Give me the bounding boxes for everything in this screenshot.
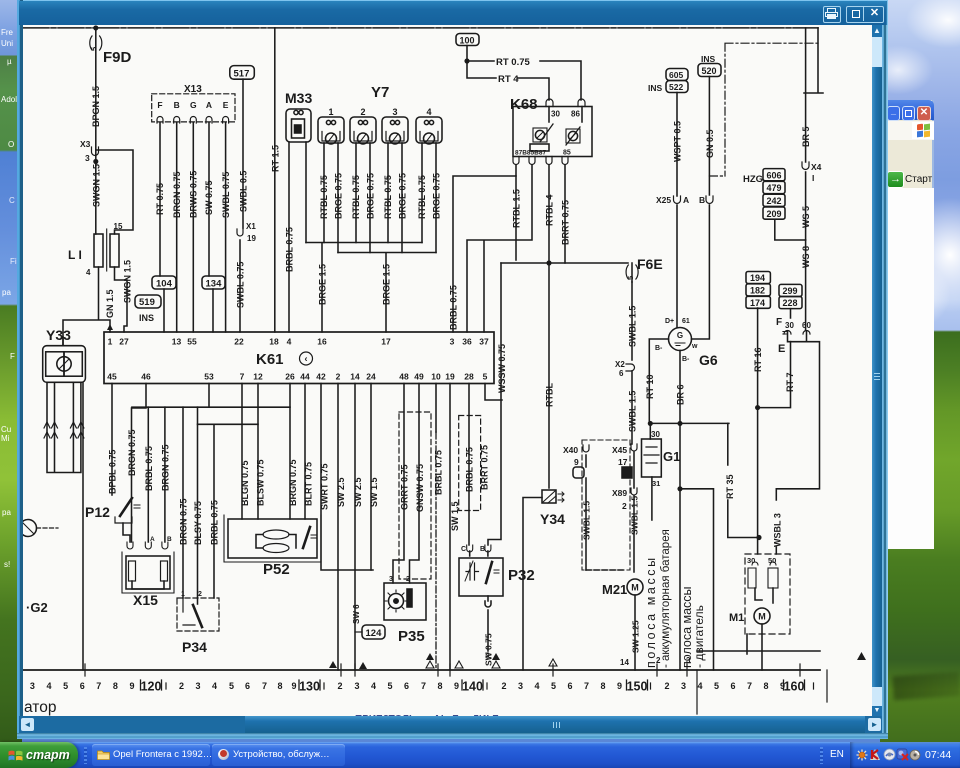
svg-text:WSPT 0.5: WSPT 0.5 <box>673 121 683 162</box>
svg-text:C: C <box>461 546 466 553</box>
svg-text:SWBL 1.5: SWBL 1.5 <box>628 306 638 347</box>
svg-text:B-: B- <box>655 345 663 352</box>
K68 bottom connector stubs <box>513 157 519 165</box>
wire G6 bottom BR 6 <box>679 351 681 424</box>
wires injector 1 <box>324 143 338 253</box>
svg-text:F6E: F6E <box>637 256 663 272</box>
clock <box>925 749 951 761</box>
dashed harness box X40 X45 <box>582 440 630 570</box>
svg-text:G6: G6 <box>699 352 718 368</box>
wire pin 2 SW 2.5 <box>337 384 339 671</box>
svg-text:F: F <box>776 317 782 328</box>
diagram bottom frame line <box>23 669 820 671</box>
svg-text:14: 14 <box>620 658 629 667</box>
svg-text:3: 3 <box>85 153 90 163</box>
svg-text:B: B <box>174 100 180 110</box>
svg-text:X40: X40 <box>563 445 578 455</box>
sensor P35 <box>384 583 426 620</box>
svg-text:174: 174 <box>750 298 765 308</box>
svg-text:SWGN 1.5: SWGN 1.5 <box>123 260 133 303</box>
svg-text:299: 299 <box>783 286 798 296</box>
svg-text:X2: X2 <box>615 360 625 369</box>
ruler ticks below frame <box>697 670 827 714</box>
svg-text:WS 8: WS 8 <box>801 246 811 268</box>
svg-text:GNSW 0.75: GNSW 0.75 <box>415 464 425 512</box>
svg-text:30: 30 <box>651 430 660 439</box>
svg-text:M33: M33 <box>285 90 312 106</box>
svg-text:3: 3 <box>392 107 397 117</box>
Старт launcher row <box>887 171 904 188</box>
svg-text:104: 104 <box>156 279 173 290</box>
svg-text:BRWS 0.75: BRWS 0.75 <box>189 171 199 218</box>
wire 517 to X1 to K61 pin 22 <box>240 79 243 332</box>
wires injector 4 <box>422 143 436 253</box>
svg-text:BRBL 0.75: BRBL 0.75 <box>449 285 459 330</box>
svg-text:RTBL 0.75: RTBL 0.75 <box>417 175 427 219</box>
svg-text:194: 194 <box>750 273 765 283</box>
svg-text:4: 4 <box>426 107 431 117</box>
svg-text:BLSY 0.75: BLSY 0.75 <box>193 501 203 545</box>
battery G1 <box>649 423 651 439</box>
wire RTBL 1.5 <box>515 176 517 260</box>
wire M33 right to bus <box>305 142 307 243</box>
wires pins 7,12,26,44 to P52 <box>241 384 243 520</box>
svg-text:A: A <box>206 100 212 110</box>
wire WS 5 <box>805 172 807 240</box>
solenoid Y34 <box>542 490 556 503</box>
wire M21 to bottom frame <box>634 595 636 670</box>
svg-text:BR 6: BR 6 <box>676 384 686 405</box>
svg-text:M: M <box>631 583 639 593</box>
svg-text:E: E <box>223 100 229 110</box>
sensor P34 <box>177 598 219 631</box>
wire pin 10 screened <box>435 384 437 433</box>
wire pin 14 SW 2.5 to 124 <box>354 384 356 671</box>
svg-text:BRGE 1.5: BRGE 1.5 <box>318 264 328 305</box>
wire stub 85B to pins 36 37 bus <box>467 165 532 332</box>
svg-text:85: 85 <box>563 150 571 157</box>
desktop wallpaper right strip (sky + grass) <box>880 0 960 768</box>
separator dots <box>84 747 87 764</box>
svg-text:SWBL 1.5: SWBL 1.5 <box>630 496 640 535</box>
sensor P32 <box>459 558 503 596</box>
wire Y33 top stub <box>62 337 64 346</box>
svg-text:BRGE 1.5: BRGE 1.5 <box>382 264 392 305</box>
code box 100 <box>456 34 479 46</box>
wire SWBL 1.5 to X45 <box>631 371 633 444</box>
taskbar <box>0 742 960 768</box>
wire from X13 pin B to K61 pin 13 <box>176 123 178 332</box>
svg-text:GN 0.5: GN 0.5 <box>705 129 715 158</box>
svg-text:BLSW 0.75: BLSW 0.75 <box>256 459 266 506</box>
wire RT 35 <box>728 423 759 537</box>
wire engine ground to frame edge <box>697 650 820 652</box>
sensor block P52 <box>228 519 317 558</box>
wire GN 0.5 from 520 to B to G6 <box>692 77 710 340</box>
code box 519 INS <box>135 295 161 308</box>
wire WSPT 0.5 from 522 to X25 to G6 <box>676 93 678 328</box>
svg-text:SWBL 0.75: SWBL 0.75 <box>236 262 246 308</box>
svg-text:ws: ws <box>485 651 491 661</box>
control unit K61 <box>104 332 494 384</box>
menu strip with XP logo <box>886 121 934 140</box>
svg-text:BRRT 0.75: BRRT 0.75 <box>561 200 571 245</box>
secondary window title bar <box>886 100 934 120</box>
svg-text:5: 5 <box>90 47 99 51</box>
svg-text:BLGN 0.75: BLGN 0.75 <box>240 460 250 506</box>
wire pin 19 SW 1.5 <box>449 384 451 671</box>
clouds on right strip <box>878 0 960 120</box>
svg-text:1: 1 <box>328 107 333 117</box>
svg-text:520: 520 <box>702 66 717 76</box>
svg-text:X25: X25 <box>656 195 671 205</box>
dashed box around P35 wires <box>399 412 431 579</box>
svg-text:G: G <box>190 100 197 110</box>
svg-text:RT 16: RT 16 <box>753 347 763 372</box>
injector bus wires to K61 pins 16 and 17 <box>306 243 422 333</box>
wires bus to X15 and P34 <box>148 407 165 542</box>
svg-text:M1: M1 <box>729 612 744 624</box>
title bar <box>19 1 886 25</box>
svg-text:242: 242 <box>767 196 782 206</box>
svg-text:BRGN 0.75: BRGN 0.75 <box>160 444 170 491</box>
wire WSSW 0.75 from pin 37 around K61 to P32 <box>488 263 501 545</box>
svg-text:RTBL 4: RTBL 4 <box>545 195 555 226</box>
svg-text:X45: X45 <box>612 445 627 455</box>
ground bus wire from Y33 to bottom frame <box>82 383 84 670</box>
svg-text:SW 2.5: SW 2.5 <box>336 477 346 507</box>
svg-text:SWGN 1.5: SWGN 1.5 <box>91 164 101 207</box>
wire M33 to K61 pin 4 <box>288 142 290 332</box>
svg-text:SW 6: SW 6 <box>352 604 361 624</box>
tray icon: kaspersky K <box>869 748 882 761</box>
svg-text:SW 1.25: SW 1.25 <box>631 620 641 653</box>
svg-text:RT 35: RT 35 <box>725 474 735 499</box>
svg-text:19: 19 <box>247 234 256 243</box>
ruler decade separators <box>141 680 805 690</box>
svg-text:BLRT 0.75: BLRT 0.75 <box>304 462 314 506</box>
alternator G6 <box>669 328 692 351</box>
svg-text:BRBL 0.75: BRBL 0.75 <box>144 446 154 491</box>
wires Y33 down with arrows <box>47 382 81 472</box>
svg-text:X1: X1 <box>246 222 256 231</box>
svg-text:454653712264442214244849101928: 4546537122644422142448491019285 <box>107 372 487 382</box>
svg-text:BPBL 0.75: BPBL 0.75 <box>108 450 118 494</box>
minimize button <box>887 106 900 121</box>
svg-text:BPGN 1.5: BPGN 1.5 <box>91 86 101 127</box>
svg-text:50: 50 <box>768 556 776 565</box>
svg-text:P32: P32 <box>508 567 535 584</box>
svg-text:RT 1.5: RT 1.5 <box>270 145 280 172</box>
svg-text:‹: ‹ <box>305 354 308 364</box>
svg-text:D+: D+ <box>665 318 674 325</box>
svg-text:86: 86 <box>571 110 580 119</box>
svg-text:SW 1.5: SW 1.5 <box>450 501 460 531</box>
separator dots right <box>820 747 823 764</box>
svg-text:P35: P35 <box>398 628 425 645</box>
wires injector 3 <box>388 143 402 253</box>
wire branch to L1 right coil <box>96 150 133 234</box>
svg-text:2: 2 <box>622 501 627 511</box>
svg-text:RTBL: RTBL <box>545 383 555 407</box>
desktop icon label fragments on left strip <box>1 27 13 49</box>
svg-text:INS: INS <box>701 54 716 64</box>
svg-text:RT 7: RT 7 <box>785 372 795 392</box>
svg-text:4: 4 <box>86 268 91 277</box>
system tray <box>850 742 960 768</box>
svg-text:B: B <box>480 546 485 553</box>
svg-text:BRGE 0.75: BRGE 0.75 <box>366 173 376 219</box>
svg-text:K61: K61 <box>256 351 284 368</box>
svg-text:60: 60 <box>802 321 811 330</box>
svg-text:I: I <box>812 173 814 183</box>
svg-text:A: A <box>150 536 155 543</box>
wire WSBL 3 <box>776 342 819 554</box>
svg-text:Y7: Y7 <box>371 84 389 101</box>
svg-text:E: E <box>778 343 785 355</box>
wire BRRT 0.75 <box>564 165 566 263</box>
wire WS 8 down to connector 60 <box>805 240 807 330</box>
wire P32 bottom <box>485 596 491 651</box>
svg-text:30: 30 <box>747 556 755 565</box>
fuse F6E <box>501 262 628 264</box>
svg-text:GRRT 0.75: GRRT 0.75 <box>400 464 410 510</box>
print button <box>823 6 841 23</box>
svg-text:SWRT 0.75: SWRT 0.75 <box>320 463 330 510</box>
svg-text:BRRT 0.75: BRRT 0.75 <box>480 445 490 490</box>
svg-text:RT 4: RT 4 <box>498 74 519 85</box>
svg-text:BRBL 0.75: BRBL 0.75 <box>210 500 220 545</box>
code boxes 299 228 <box>779 284 802 296</box>
svg-text:BRBL 0.75: BRBL 0.75 <box>465 447 475 492</box>
svg-text:RTBL 0.75: RTBL 0.75 <box>383 175 393 219</box>
wire K68 to BRBL bus and down to K61 pin 3 <box>453 165 516 332</box>
svg-text:w: w <box>691 343 698 350</box>
wire from X13 pin E <box>225 123 227 332</box>
ground point G2 <box>20 520 37 537</box>
svg-text:GN 1.5: GN 1.5 <box>105 289 115 318</box>
tray icon: sunburst <box>856 749 868 761</box>
svg-text:2: 2 <box>198 591 202 598</box>
maximize + close buttons group <box>846 6 884 23</box>
starter M1 dashed box <box>745 554 790 634</box>
svg-text:G1: G1 <box>663 449 680 464</box>
wire from X13 pin G to K61 pin 55 <box>192 123 194 332</box>
svg-text:228: 228 <box>783 298 798 308</box>
svg-text:BRGE 0.75: BRGE 0.75 <box>334 173 344 219</box>
svg-text:·G2: ·G2 <box>26 600 48 615</box>
secondary window (behind main window, right side) <box>886 100 934 549</box>
svg-text:BRGN 0.75: BRGN 0.75 <box>288 459 298 506</box>
wire BRBL to P34 <box>198 424 259 598</box>
white page with schematic <box>23 25 872 716</box>
code boxes 194 182 174 <box>746 272 770 284</box>
svg-text:17: 17 <box>618 457 628 467</box>
svg-text:WS 5: WS 5 <box>801 206 811 228</box>
svg-text:P52: P52 <box>263 561 290 578</box>
svg-text:BRGE 0.75: BRGE 0.75 <box>432 173 442 219</box>
svg-text:HZG: HZG <box>743 174 763 185</box>
svg-text:6: 6 <box>619 369 624 378</box>
svg-text:1: 1 <box>181 591 185 598</box>
svg-text:P12: P12 <box>85 504 110 520</box>
svg-text:K68: K68 <box>510 96 538 113</box>
wire pin 53 to distribution bus <box>132 384 290 408</box>
language indicator EN <box>830 749 844 760</box>
wire HZG to WS junction <box>775 220 806 240</box>
svg-text:SW 2.5: SW 2.5 <box>353 477 363 507</box>
wire pin 42 SWRT <box>321 384 373 571</box>
svg-text:Y34: Y34 <box>540 511 565 527</box>
tray icon: round grey <box>909 749 921 761</box>
svg-text:RTBL 1.5: RTBL 1.5 <box>512 189 522 228</box>
svg-text:2: 2 <box>406 576 410 583</box>
svg-text:G: G <box>677 331 683 340</box>
wires injector 2 <box>356 143 370 253</box>
svg-text:полоса массы: полоса массы <box>644 555 658 668</box>
wire RT 0.75 from box 100 to K68 pin 86 <box>467 46 581 101</box>
svg-text:127135522184161733637: 127135522184161733637 <box>108 337 489 347</box>
wire RTBL 4 from K68 to Y34 <box>548 165 550 488</box>
svg-text:M: M <box>758 612 766 622</box>
close button <box>917 106 931 121</box>
svg-text:B: B <box>167 536 172 543</box>
wire from X13 pin A with box 134 <box>209 123 213 332</box>
svg-text:WSSW 0.75: WSSW 0.75 <box>497 344 507 393</box>
wire pin 49 GNSW to P35 <box>410 384 420 584</box>
wire pin 24 SW 1.5 <box>370 384 372 571</box>
junction bus to battery and RT 35 <box>649 422 729 424</box>
task button 1 <box>92 744 210 766</box>
vertical scrollbar <box>872 25 882 716</box>
fuse F9D <box>95 28 97 162</box>
svg-text:X15: X15 <box>133 592 158 608</box>
svg-text:B-: B- <box>682 356 690 363</box>
svg-text:5: 5 <box>626 276 635 280</box>
wire pin 46 to X15 <box>132 384 147 543</box>
wire M1 to bottom frame <box>747 624 762 670</box>
diagram top frame line <box>23 27 818 29</box>
dashed box around P32 wire <box>459 416 481 511</box>
svg-text:522: 522 <box>669 82 683 92</box>
svg-text:- аккумуляторная батарея: - аккумуляторная батарея <box>660 529 672 668</box>
svg-text:182: 182 <box>750 286 765 296</box>
wire pin 45 to P12 <box>111 384 113 496</box>
task button 2 <box>212 744 345 766</box>
wire X40 down <box>585 455 587 570</box>
wire L1 left coil to Y33 and K61 pin 1 <box>63 267 110 346</box>
dash-dot construction line <box>709 43 818 176</box>
svg-text:209: 209 <box>767 209 782 219</box>
window bottom border strip <box>17 733 888 739</box>
frame right stub and tick <box>804 28 823 93</box>
svg-text:BRGN 0.75: BRGN 0.75 <box>172 171 182 218</box>
wire pin 5 joining WSSW <box>485 384 502 401</box>
white client area <box>886 188 934 549</box>
window left border stripes <box>17 0 23 739</box>
tray icon: blue with red x <box>896 748 909 761</box>
svg-text:RT 10: RT 10 <box>645 374 655 399</box>
wire RT 16 <box>757 308 759 408</box>
svg-text:2: 2 <box>360 107 365 117</box>
connector X4 <box>802 162 809 170</box>
svg-text:134: 134 <box>206 279 223 290</box>
direction arrows at bottom <box>329 661 337 668</box>
svg-text:124: 124 <box>366 628 383 639</box>
code boxes 605 522 INS <box>666 69 688 81</box>
svg-text:WSBL 3: WSBL 3 <box>773 513 783 547</box>
svg-text:BRGN 0.75: BRGN 0.75 <box>127 429 137 476</box>
svg-text:RT 0.75: RT 0.75 <box>496 57 531 68</box>
wire RT 1.5 from frame to K61 pin 18 <box>274 28 276 332</box>
code box 517 <box>230 66 255 80</box>
svg-text:31: 31 <box>652 479 660 488</box>
svg-text:P34: P34 <box>182 639 207 655</box>
svg-text:SWBL 0.75: SWBL 0.75 <box>221 172 231 218</box>
svg-text:RT 0.75: RT 0.75 <box>155 183 165 215</box>
svg-text:61: 61 <box>682 318 690 325</box>
wire X45 to X89 to M21 <box>633 452 635 572</box>
code box 124 <box>362 625 385 639</box>
wire G1 bottom <box>651 477 653 520</box>
wire pin 28 BRBL to P32 <box>468 384 470 546</box>
svg-text:606: 606 <box>767 170 782 180</box>
svg-text:519: 519 <box>139 297 155 308</box>
svg-text:SWBL 1.5: SWBL 1.5 <box>582 501 592 540</box>
svg-text:SW 0.75: SW 0.75 <box>484 633 494 666</box>
svg-text:RTBL 0.75: RTBL 0.75 <box>319 175 329 219</box>
wire RT16 down to M1 <box>757 408 759 554</box>
svg-text:SW 1.5: SW 1.5 <box>369 477 379 507</box>
svg-text:L I: L I <box>68 248 82 262</box>
svg-text:605: 605 <box>669 70 683 80</box>
svg-text:15: 15 <box>114 222 123 231</box>
svg-text:SW 0.75: SW 0.75 <box>204 180 214 215</box>
windows flag on start button <box>8 748 23 763</box>
svg-text:BRBL 0.75: BRBL 0.75 <box>285 227 295 272</box>
wire RT 4 from box 100 to K68 pin 30 <box>467 61 549 100</box>
wire G6 B- down RT 10 <box>649 339 668 423</box>
svg-text:SWBL 0.5: SWBL 0.5 <box>239 171 249 212</box>
svg-text:- двигатель: - двигатель <box>692 605 706 668</box>
svg-text:30: 30 <box>551 110 560 119</box>
svg-text:X3: X3 <box>80 139 91 149</box>
svg-text:атор: атор <box>24 699 56 716</box>
svg-text:BRGE 0.75: BRGE 0.75 <box>398 173 408 219</box>
svg-text:M21: M21 <box>602 582 627 597</box>
svg-text:F: F <box>157 100 162 110</box>
maximize button <box>902 106 915 121</box>
svg-text:X89: X89 <box>612 488 627 498</box>
svg-text:A: A <box>683 195 689 205</box>
svg-text:100: 100 <box>460 36 475 46</box>
wire pin 48 GRRT to P35 <box>393 384 404 584</box>
svg-text:BRGN 0.75: BRGN 0.75 <box>179 498 189 545</box>
engine bus branch to frame <box>678 487 682 491</box>
desktop wallpaper left strip <box>0 0 22 768</box>
tray icon: shield/ball <box>883 748 896 761</box>
svg-text:3: 3 <box>389 576 393 583</box>
horizontal scrollbar <box>19 716 882 733</box>
svg-text:BR 5: BR 5 <box>801 126 811 147</box>
svg-text:479: 479 <box>767 183 782 193</box>
wire from X13 pin F with box 104 <box>160 123 164 332</box>
wire L1 right coil to K61 pin 27 <box>115 267 128 332</box>
svg-text:120130140150160: 120130140150160 <box>141 680 805 694</box>
wire RT 7 <box>758 342 791 408</box>
svg-text:INS: INS <box>139 313 154 323</box>
svg-text:F9D: F9D <box>103 49 132 66</box>
